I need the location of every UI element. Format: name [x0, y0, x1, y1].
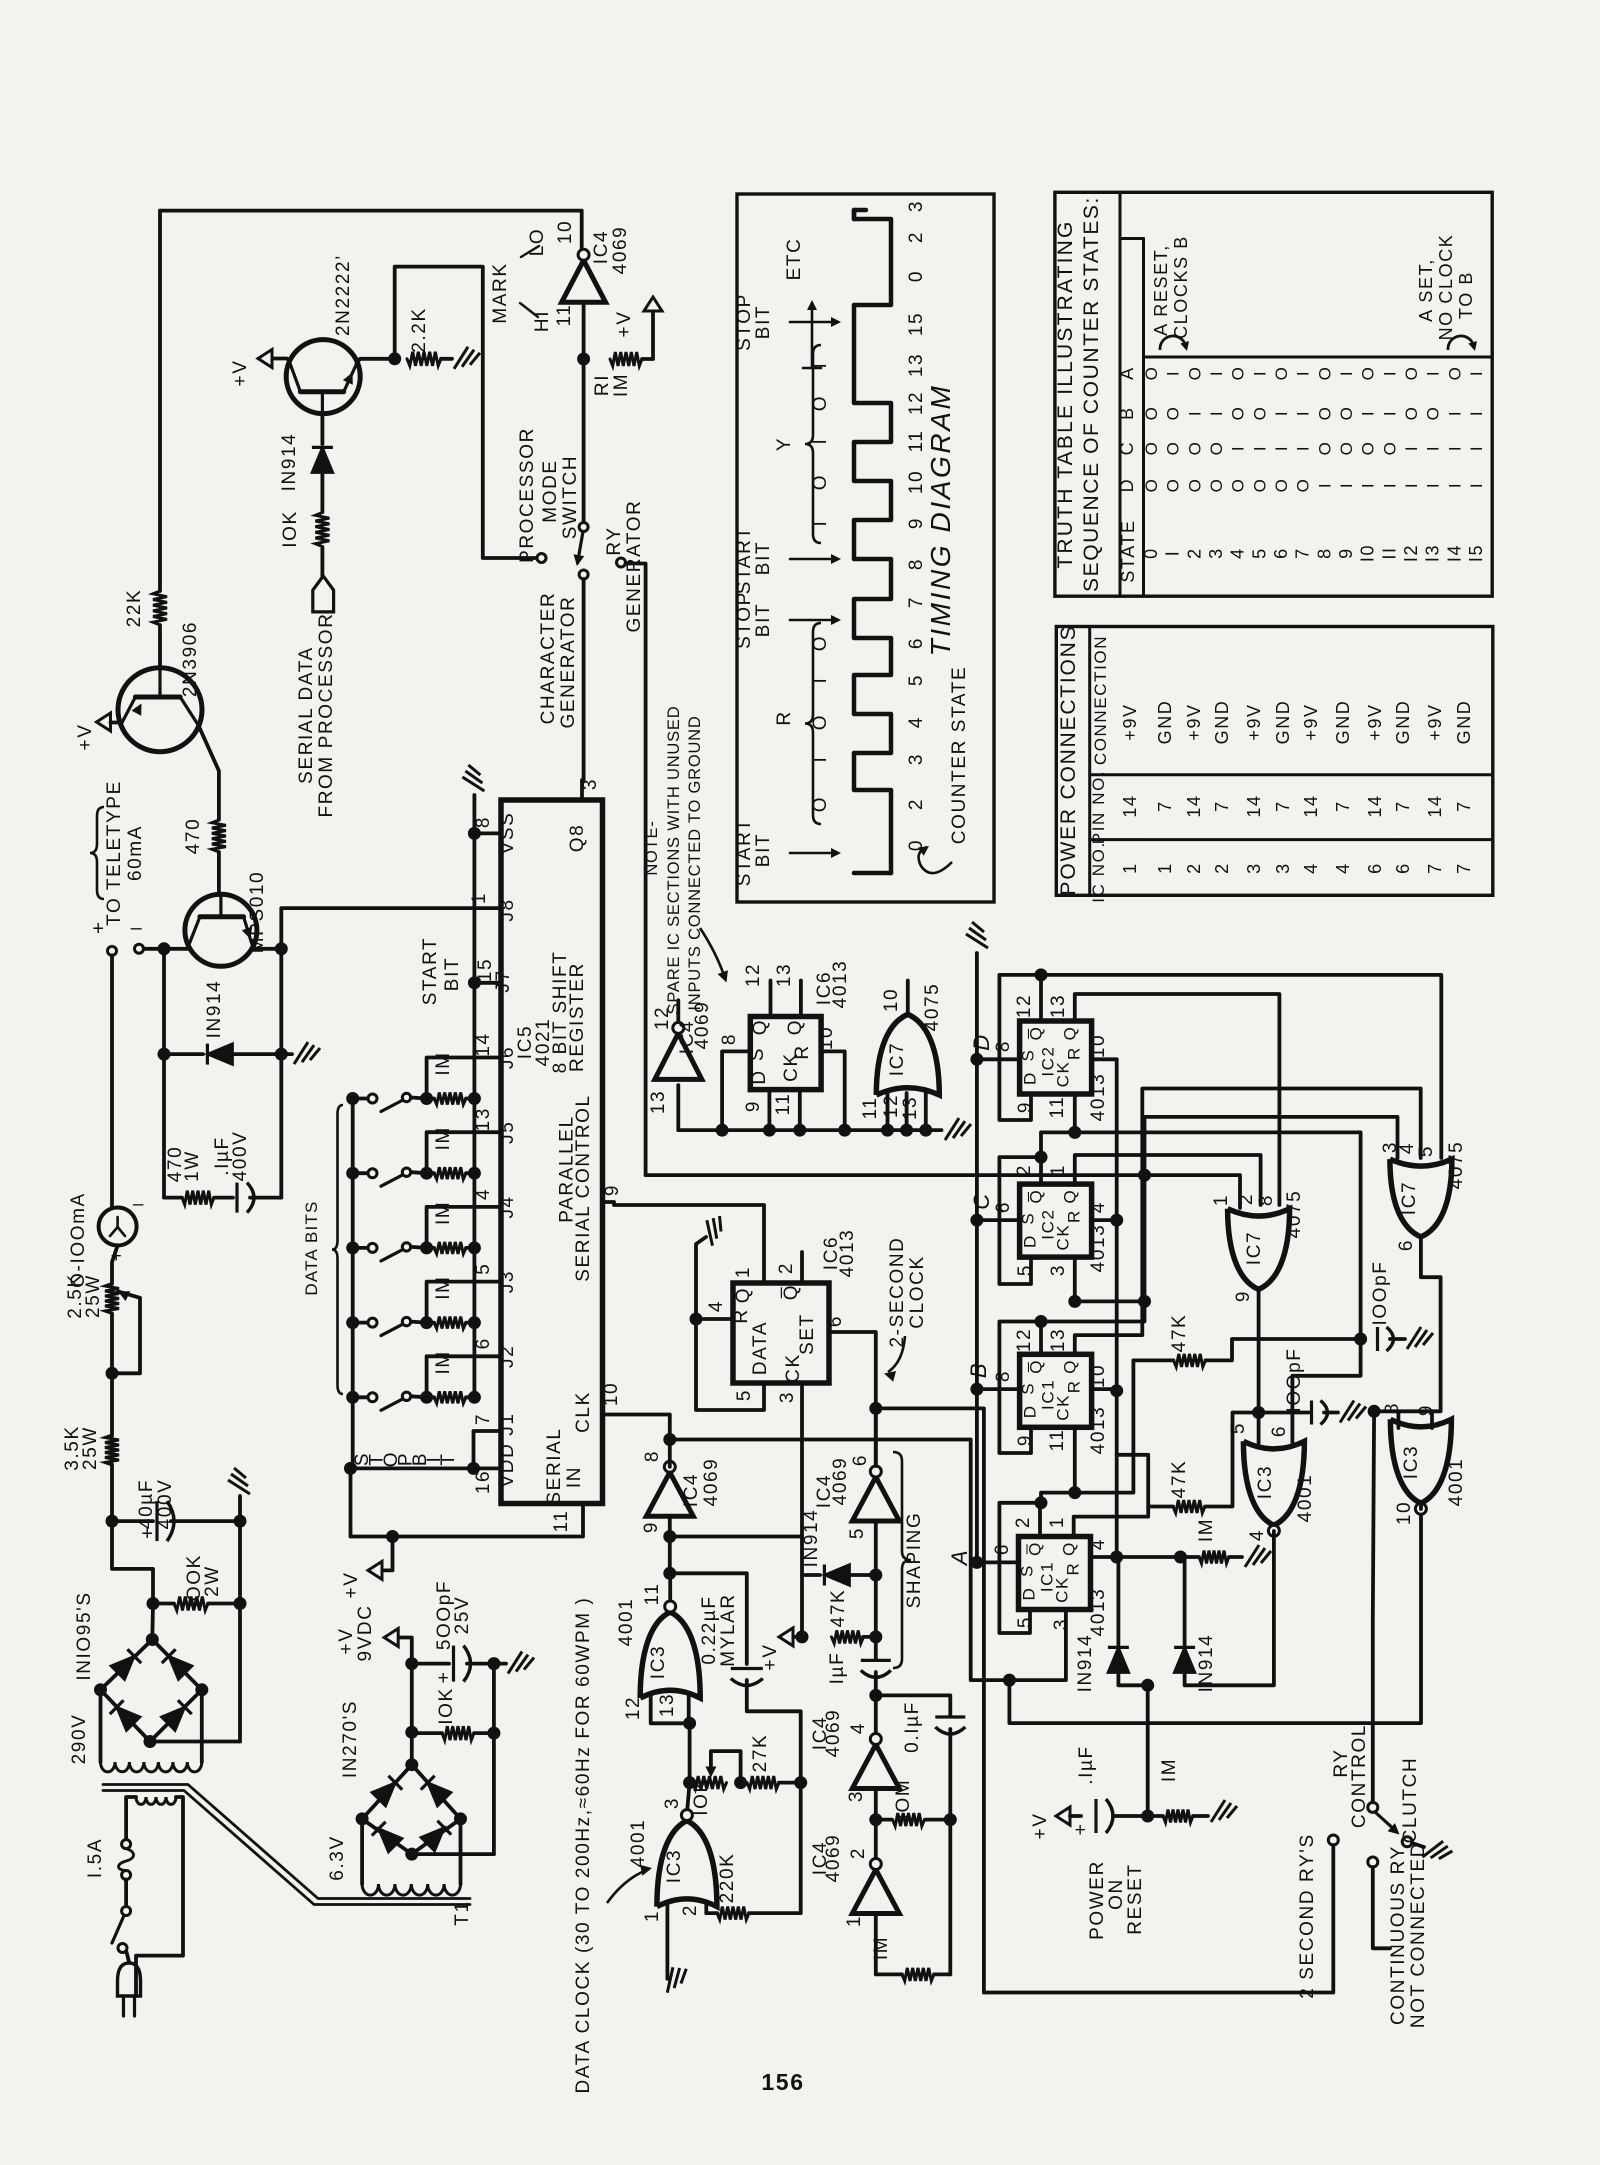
RY generator loop wire [646, 1173, 1145, 1177]
svg-text:J7: J7 [493, 969, 514, 992]
svg-text:IC NO.: IC NO. [1089, 841, 1108, 903]
svg-text:10: 10 [906, 470, 927, 494]
svg-text:13: 13 [774, 963, 795, 987]
wire bridge bottom to right rail [150, 1740, 240, 1744]
svg-text:+V: +V [760, 1644, 781, 1671]
svg-text:+: + [438, 1668, 451, 1689]
svg-text:D: D [1117, 478, 1137, 493]
svg-text:4: 4 [848, 1722, 869, 1734]
svg-text:15: 15 [906, 312, 927, 336]
svg-text:6: 6 [1271, 547, 1291, 559]
data bit riser 3 [427, 1207, 475, 1248]
svg-text:CLK: CLK [573, 1391, 594, 1433]
state column line [1142, 239, 1145, 597]
svg-text:BIT: BIT [442, 957, 463, 991]
resistor 1M data bit 3 [420, 1241, 433, 1254]
svg-text:ON: ON [1106, 1878, 1127, 1910]
A FF pin 2 Qbar [1038, 1503, 1042, 1537]
svg-text:O: O [1164, 441, 1183, 456]
IC6 pin 3 CK wire down to oscillator node [800, 1383, 804, 1537]
svg-text:2: 2 [776, 1262, 797, 1274]
IC5 4021 8 bit shift register [501, 800, 603, 1504]
wire 100pF node down to IC3 left pin 6 [1292, 1339, 1360, 1443]
svg-text:0.22µF: 0.22µF [699, 1595, 720, 1664]
svg-text:D: D [1021, 1234, 1040, 1248]
diode IN914 keyer clamp [164, 1052, 203, 1056]
svg-text:9: 9 [743, 1100, 764, 1112]
svg-text:I: I [1380, 410, 1399, 416]
svg-text:12: 12 [881, 1094, 902, 1118]
diode IN914 reset left [1117, 1557, 1121, 1645]
IC6 spare pin 9 D to ground [768, 1090, 772, 1131]
svg-text:CONNECTION: CONNECTION [1091, 635, 1110, 765]
100pF capacitor lower [1259, 1411, 1309, 1415]
svg-text:O: O [1164, 478, 1183, 493]
svg-text:BIT: BIT [753, 603, 774, 637]
stop bit strap wire to left rail [351, 1467, 474, 1471]
svg-text:+: + [1075, 1820, 1088, 1841]
start bit arrow first [790, 852, 838, 855]
IC5 serial in pin 11 [351, 1504, 584, 1537]
svg-text:3: 3 [662, 1797, 683, 1809]
svg-text:R: R [731, 1308, 752, 1323]
svg-text:10: 10 [1394, 1501, 1415, 1525]
resistor 47K lower [1173, 1500, 1205, 1513]
resistor 220K [717, 1907, 749, 1920]
svg-text:3: 3 [1244, 862, 1264, 874]
svg-text:5: 5 [1249, 547, 1269, 559]
svg-text:C: C [1117, 441, 1137, 456]
svg-text:IC4: IC4 [591, 230, 612, 264]
svg-text:4: 4 [1228, 547, 1248, 559]
ground at keyer clamp [281, 1052, 292, 1056]
svg-text:9: 9 [602, 1184, 623, 1196]
svg-text:IOOpF: IOOpF [1370, 1260, 1391, 1325]
svg-text:5: 5 [906, 674, 927, 686]
svg-text:O: O [1250, 478, 1269, 493]
svg-text:4001: 4001 [1295, 1474, 1316, 1523]
fuse 1.5A [122, 1840, 131, 1849]
svg-text:VSS: VSS [497, 812, 518, 855]
svg-text:14: 14 [1244, 794, 1264, 817]
svg-text:8: 8 [906, 558, 927, 570]
wire left rail down to 22K [158, 211, 162, 591]
wire 2N3906 collector to 470 [199, 726, 219, 820]
B FF pin 12 Qbar [1039, 1322, 1043, 1355]
svg-text:I: I [1315, 482, 1334, 488]
resistor 22K [153, 591, 167, 625]
svg-text:Q8: Q8 [567, 824, 588, 853]
svg-text:11: 11 [642, 1583, 663, 1606]
svg-text:J6: J6 [497, 1046, 518, 1069]
svg-text:9: 9 [906, 517, 927, 529]
diode IN914 reset right [1183, 1557, 1187, 1645]
svg-text:13: 13 [648, 1090, 669, 1114]
resistor 100K 2W [174, 1597, 208, 1611]
svg-text:9: 9 [641, 1521, 662, 1533]
diode IN914 at 2N2222 base [320, 414, 324, 444]
IC6 4013 2-second clock flip flop [733, 1283, 829, 1383]
A FF pin 5 D loop [999, 1503, 1041, 1633]
wire spare inverter input to ground rail [676, 1085, 680, 1130]
svg-text:CLUTCH: CLUTCH [1400, 1757, 1421, 1844]
svg-text:I: I [1272, 410, 1291, 416]
mode switch SPDT [579, 523, 588, 532]
svg-text:0: 0 [1141, 547, 1161, 559]
svg-text:O: O [1185, 366, 1204, 381]
inverter IC4 pins 8-9 clock buffer [646, 1472, 693, 1516]
resistor 1M data bit 5 [420, 1391, 433, 1404]
svg-text:POWER: POWER [1087, 1860, 1108, 1940]
svg-text:S: S [1018, 1564, 1037, 1577]
svg-text:4: 4 [1088, 1201, 1109, 1213]
svg-text:4: 4 [1247, 1529, 1268, 1541]
flip flop D IC2 4013 [1020, 1021, 1092, 1094]
svg-text:9: 9 [1233, 1290, 1254, 1302]
svg-text:IM: IM [1159, 1758, 1180, 1782]
svg-text:4069: 4069 [823, 1709, 844, 1758]
inverter IC4 pins 5-6 shaping [852, 1477, 899, 1521]
svg-text:COUNTER STATE: COUNTER STATE [949, 666, 970, 844]
cap bottom to 27K [747, 1680, 801, 1783]
svg-text:STOP: STOP [734, 591, 755, 649]
svg-text:8: 8 [993, 1370, 1014, 1382]
C FF pin 3 CK [1073, 1257, 1077, 1301]
svg-text:2-SECOND: 2-SECOND [887, 1237, 908, 1348]
svg-text:I: I [1229, 445, 1248, 451]
inverter IC4 pins 10-11 mark/space [562, 260, 606, 302]
svg-text:I: I [1445, 445, 1464, 451]
svg-text:I: I [1380, 482, 1399, 488]
B flip-flop IC1 4013 [1020, 1354, 1092, 1427]
wire to IC3 right inputs 8 9 [1397, 1411, 1401, 1428]
svg-text:IM: IM [1196, 1518, 1217, 1542]
IC7 left output 9 down to IC3 pin 5 [1257, 1289, 1261, 1412]
+V at serial in rail [382, 1537, 393, 1571]
transformer T1 primary winding [136, 1797, 176, 1804]
svg-text:CK: CK [783, 1353, 804, 1383]
A flip-flop IC1 4013 [1019, 1537, 1091, 1610]
svg-text:7: 7 [1293, 547, 1313, 559]
RY CONTROL switch [1368, 1802, 1378, 1812]
svg-text:IN: IN [564, 1466, 585, 1488]
wire 470 to MPS010 base [217, 852, 221, 895]
B FF pin 8 S [977, 1387, 1020, 1391]
timing diagram box [737, 194, 994, 902]
100pF capacitor upper [1376, 1327, 1379, 1351]
svg-text:O: O [1315, 441, 1334, 456]
svg-text:25V: 25V [452, 1596, 473, 1635]
svg-text:8: 8 [642, 1450, 663, 1462]
svg-text:MARK: MARK [490, 262, 511, 323]
reset rail to 1M [1117, 1555, 1181, 1559]
svg-text:O: O [1315, 406, 1334, 421]
data clock arrow [607, 1869, 649, 1903]
svg-text:O: O [1294, 478, 1313, 493]
data bit switch 4 [346, 1316, 359, 1329]
svg-text:4: 4 [906, 716, 927, 728]
IC6 pin 6 SET wire [829, 1332, 876, 1466]
oscillator node pin 9 [668, 1516, 672, 1536]
svg-text:+V: +V [230, 360, 251, 387]
svg-text:6: 6 [1396, 1239, 1417, 1251]
resistor 47K shaping [800, 1575, 804, 1637]
svg-text:O: O [1142, 406, 1161, 421]
wire to 0.22uF timing cap [670, 1573, 747, 1664]
svg-text:1: 1 [1047, 1516, 1068, 1528]
svg-text:6: 6 [825, 1315, 846, 1327]
svg-text:13: 13 [906, 353, 927, 377]
svg-text:3: 3 [906, 200, 927, 212]
svg-text:12: 12 [743, 963, 764, 987]
svg-text:9: 9 [1416, 1404, 1437, 1416]
svg-text:SERIAL: SERIAL [544, 1427, 565, 1504]
svg-text:IC3: IC3 [664, 1849, 685, 1883]
resistor 1M reset [1199, 1551, 1229, 1564]
IC5 pin 4 J4 [474, 1205, 501, 1209]
inverter IC4 pins 12-13 spare [676, 1000, 680, 1028]
svg-text:BIT: BIT [753, 541, 774, 575]
transistor Q3 MPS010 [185, 894, 257, 966]
IC7 right gate 4075 pins 3 4 5 output 6 [1390, 1159, 1452, 1237]
svg-text:27K: 27K [750, 1734, 771, 1773]
svg-text:1: 1 [1120, 862, 1140, 874]
capacitor .1uF 400V [235, 1183, 238, 1213]
terminal plus of teletype loop [108, 946, 117, 955]
B FF pin 9 D loop [999, 1322, 1041, 1454]
svg-text:2: 2 [1212, 862, 1232, 874]
A FF pin 6 S [977, 1561, 1019, 1565]
svg-text:O: O [1315, 366, 1334, 381]
svg-text:+9V: +9V [1120, 703, 1140, 740]
svg-text:47K: 47K [1169, 1314, 1190, 1353]
wire right rail of supply [238, 1521, 242, 1741]
wire 220K to 27K node [799, 1783, 803, 1914]
svg-text:I: I [1250, 370, 1269, 376]
svg-text:6: 6 [992, 1543, 1013, 1555]
svg-text:9: 9 [1336, 547, 1356, 559]
svg-text:IM: IM [433, 1051, 454, 1075]
svg-text:T: T [438, 1452, 459, 1465]
svg-text:14: 14 [1301, 794, 1321, 817]
svg-text:S: S [1019, 1212, 1038, 1225]
svg-text:25W: 25W [83, 1274, 104, 1318]
left rail joining strap [349, 1468, 353, 1536]
svg-text:I.5A: I.5A [85, 1838, 106, 1878]
data bit switch 2 [346, 1167, 359, 1180]
svg-text:+9V: +9V [1184, 703, 1204, 740]
svg-text:13: 13 [1048, 1328, 1069, 1352]
svg-text:8: 8 [719, 1033, 740, 1045]
svg-text:7: 7 [1333, 800, 1353, 812]
svg-text:IC3: IC3 [648, 1645, 669, 1679]
svg-text:IOK: IOK [280, 510, 301, 548]
connector SERIAL DATA FROM PROCESSOR [320, 547, 324, 576]
svg-text:MODE: MODE [540, 459, 561, 522]
capacitor 0.22uF MYLAR [731, 1667, 763, 1670]
junction dot MPS010 left node [164, 947, 188, 951]
svg-text:IN914: IN914 [1196, 1634, 1217, 1693]
wire shaping node down to 1uF [874, 1575, 878, 1659]
svg-text:TRUTH TABLE ILLUSTRATING: TRUTH TABLE ILLUSTRATING [1054, 219, 1077, 568]
svg-text:R: R [1065, 1209, 1084, 1223]
svg-text:8: 8 [1256, 1194, 1277, 1206]
svg-text:IN914: IN914 [1075, 1634, 1096, 1693]
terminal minus of teletype loop [143, 947, 164, 951]
svg-text:NO CLOCK: NO CLOCK [1436, 234, 1456, 341]
IC6 spare pin 13 stub [799, 981, 803, 1017]
svg-text:4: 4 [1088, 1538, 1109, 1550]
svg-text:I: I [1359, 410, 1378, 416]
terminal processor throw [537, 554, 546, 563]
2-second clock node wire right [876, 1408, 984, 1992]
AC plug [127, 1952, 130, 1962]
D FF pin 13 Q to IC7 pin 8 [1075, 994, 1280, 1205]
47K upper left lead to B CK row [1075, 1360, 1134, 1492]
C FF pin 2 Qbar [1039, 1157, 1043, 1184]
svg-text:3: 3 [1048, 1264, 1069, 1276]
svg-text:SPARE IC SECTIONS WITH UNUSED: SPARE IC SECTIONS WITH UNUSED [665, 706, 683, 1015]
transistor Q1 2N2222 [286, 340, 360, 414]
+V supply arrow at 2N3906 emitter [120, 722, 124, 724]
svg-text:O: O [1229, 366, 1248, 381]
IC7 gate left 4075 pins 1 2 8 output 9 [1228, 1209, 1290, 1290]
svg-text:CONTINUOUS RY: CONTINUOUS RY [1388, 1845, 1409, 2025]
svg-text:IN914: IN914 [204, 980, 225, 1039]
svg-text:8: 8 [993, 1040, 1014, 1052]
wire top loop from collector rail to IC4 inverter output [160, 211, 582, 249]
IC6 spare pin 8 S to ground [722, 1051, 750, 1130]
IC7 spare inputs 11 12 13 to ground [886, 1093, 890, 1130]
svg-text:II: II [1379, 546, 1399, 559]
wire 1uF to 0.1uF [876, 1695, 951, 1716]
svg-text:RI: RI [592, 374, 613, 396]
svg-text:I: I [1467, 410, 1486, 416]
svg-text:13: 13 [900, 1096, 921, 1120]
wire 2N2222 emitter to 2.2K node [357, 359, 395, 364]
svg-text:D: D [1021, 1071, 1040, 1085]
svg-text:3: 3 [1051, 1618, 1072, 1630]
svg-text:7: 7 [1212, 800, 1232, 812]
svg-text:A: A [1117, 366, 1137, 380]
B FF pin 11 CK [1073, 1427, 1077, 1493]
svg-text:R: R [1064, 1562, 1083, 1576]
svg-text:4075: 4075 [1446, 1141, 1467, 1190]
svg-text:2: 2 [1184, 862, 1204, 874]
svg-text:4001: 4001 [616, 1598, 637, 1647]
svg-text:REGISTER: REGISTER [567, 962, 588, 1072]
svg-text:I2: I2 [1401, 544, 1421, 562]
svg-text:SEQUENCE OF COUNTER STATES:: SEQUENCE OF COUNTER STATES: [1080, 196, 1103, 592]
svg-text:S: S [747, 1047, 768, 1061]
svg-text:4: 4 [1397, 1142, 1418, 1154]
svg-text:4075: 4075 [922, 983, 943, 1032]
svg-text:J8: J8 [497, 898, 518, 921]
svg-text:14: 14 [1184, 794, 1204, 817]
svg-text:2: 2 [1013, 1516, 1034, 1528]
svg-text:RY: RY [604, 526, 625, 555]
svg-text:O: O [1337, 441, 1356, 456]
svg-text:470: 470 [183, 818, 204, 855]
OR gate IC7 spare 4075 [876, 1014, 939, 1095]
svg-text:I: I [1272, 445, 1291, 451]
svg-text:IOOpF: IOOpF [1284, 1347, 1305, 1412]
svg-text:IN914: IN914 [801, 1509, 822, 1568]
svg-text:O: O [1207, 478, 1226, 493]
svg-text:GND: GND [1273, 700, 1293, 745]
D CK wire to C Qbar [1041, 1132, 1075, 1157]
svg-text:STOP: STOP [734, 293, 755, 351]
svg-text:D: D [1020, 1587, 1039, 1601]
capacitor 500pF 25V [412, 1662, 449, 1666]
wire J7 to VSS column [472, 833, 476, 982]
svg-text:O: O [1359, 366, 1378, 381]
ground at 2.2K [441, 357, 452, 361]
D FF pin 9 D loop [999, 975, 1041, 1120]
svg-text:7: 7 [1155, 800, 1175, 812]
svg-text:–: – [133, 1194, 145, 1215]
svg-text:IC7: IC7 [1244, 1231, 1265, 1265]
svg-text:O: O [1207, 441, 1226, 456]
svg-text:O: O [1142, 366, 1161, 381]
svg-text:7: 7 [1273, 800, 1293, 812]
svg-text:I: I [1424, 445, 1443, 451]
primary right lead [136, 1797, 183, 1996]
ground symbol spare rail [945, 1118, 971, 1140]
svg-text:+9V: +9V [1365, 703, 1385, 740]
svg-text:I: I [1207, 370, 1226, 376]
svg-text:START: START [734, 818, 755, 887]
svg-text:TO TELETYPE: TO TELETYPE [104, 780, 125, 926]
+V supply at 2N2222 collector [272, 359, 290, 361]
svg-text:2: 2 [848, 1847, 869, 1859]
svg-text:SERIAL CONTROL: SERIAL CONTROL [573, 1094, 594, 1281]
svg-text:7: 7 [1425, 862, 1445, 874]
svg-text:NOTE-: NOTE- [643, 820, 661, 875]
A FF pin 1 Q to 47K lower [1074, 1507, 1173, 1537]
svg-text:I: I [1185, 410, 1204, 416]
svg-text:PROCESSOR: PROCESSOR [517, 427, 538, 563]
svg-text:I: I [1337, 370, 1356, 376]
svg-text:+9V: +9V [1425, 703, 1445, 740]
svg-text:4069: 4069 [610, 226, 631, 275]
svg-text:220K: 220K [717, 1853, 738, 1904]
svg-text:O: O [1445, 366, 1464, 381]
svg-text:O: O [1272, 478, 1291, 493]
svg-text:5: 5 [1015, 1616, 1036, 1628]
IC5 pin 14 J6 [474, 1056, 501, 1060]
resistor 47K upper [1174, 1354, 1206, 1367]
wire 3.5K rail down to 1N1095 bridge top [112, 1521, 153, 1603]
NOR IC3 left pins 5 6 output 4 [1243, 1441, 1304, 1525]
svg-text:NOT CONNECTED: NOT CONNECTED [1408, 1842, 1429, 2028]
resistor 1M power on reset [1163, 1810, 1193, 1823]
resistor 1M feedback [874, 1914, 878, 1975]
svg-text:I: I [1402, 445, 1421, 451]
IC3 right output 10 wire to clock chain [1419, 1506, 1423, 1509]
IC3 left output 4 wire down [1186, 1531, 1274, 1685]
svg-text:14: 14 [1120, 794, 1140, 817]
CLUTCH contact with ground [1412, 1843, 1424, 1847]
svg-text:T1: T1 [452, 1900, 473, 1925]
svg-text:+V: +V [614, 311, 635, 338]
svg-text:O: O [1380, 441, 1399, 456]
svg-text:1: 1 [1155, 862, 1175, 874]
B CK wire to A Qbar [1041, 1493, 1075, 1503]
inverter IC4 pins 3-4 [874, 1695, 878, 1734]
wire gate output node down to pot [688, 1723, 692, 1782]
svg-text:IOM: IOM [893, 1779, 914, 1820]
